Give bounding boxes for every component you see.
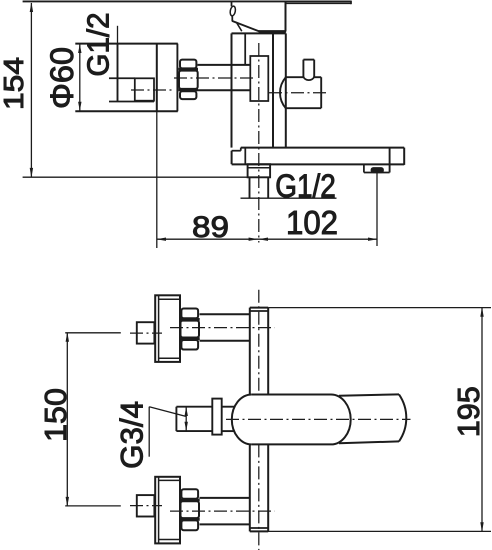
svg-text:102: 102 (286, 204, 338, 241)
svg-text:154: 154 (0, 57, 29, 110)
svg-text:Φ60: Φ60 (44, 47, 80, 109)
svg-text:G1/2: G1/2 (82, 13, 116, 77)
svg-text:195: 195 (451, 386, 486, 437)
svg-text:G3/4: G3/4 (113, 401, 149, 469)
svg-text:150: 150 (38, 388, 73, 442)
svg-text:G1/2: G1/2 (275, 168, 336, 204)
svg-text:89: 89 (192, 211, 229, 244)
